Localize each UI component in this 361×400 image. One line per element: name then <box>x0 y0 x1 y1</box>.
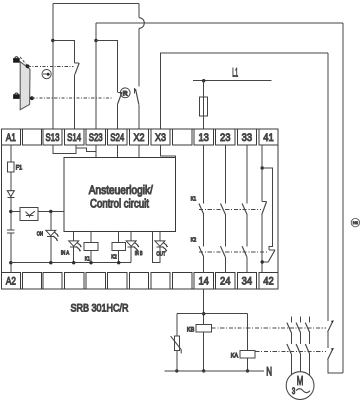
svg-text:KB: KB <box>187 326 195 333</box>
node junction power branch <box>9 210 12 213</box>
wire K1 coil column <box>90 232 92 263</box>
dashed linkage KA <box>255 350 326 352</box>
LED OUT <box>155 241 168 252</box>
node junction 41 branch <box>261 166 264 169</box>
guard door contact 2 (NC, S23-S24) <box>117 92 122 104</box>
wire A1 column <box>10 145 12 230</box>
dashed actuator line lower <box>32 97 112 99</box>
wire second rail S23 feed <box>96 22 343 24</box>
node junction ON to rail <box>49 261 52 264</box>
wire branch varistor and KA <box>177 313 248 315</box>
diode D1 <box>7 191 14 198</box>
power supply unit box with suppressor symbol <box>20 208 38 221</box>
terminal labels bottom row <box>6 275 274 287</box>
wire to power unit <box>11 211 20 213</box>
svg-text:F1: F1 <box>16 164 23 171</box>
wire X3 riser and third rail <box>161 53 328 129</box>
node door actuator dot upper <box>26 64 30 68</box>
svg-text:K2: K2 <box>111 255 117 261</box>
wire IN A led column <box>73 232 75 263</box>
dashed linkage KB <box>211 327 326 329</box>
node junction KB N <box>202 369 205 372</box>
wire IN B led column <box>130 232 132 263</box>
svg-text:41: 41 <box>263 132 274 144</box>
node junction IN A to rail <box>72 261 75 264</box>
wire N rail <box>164 370 264 372</box>
contact pole 13-14 <box>199 145 204 272</box>
node junction S23 branch <box>94 39 97 42</box>
svg-text:K2: K2 <box>191 237 197 243</box>
svg-text:OUT: OUT <box>156 252 166 258</box>
svg-text:S13: S13 <box>46 132 60 144</box>
contactor contact KA pole 3 <box>305 344 309 376</box>
dashed actuator line upper <box>28 65 74 67</box>
LED IN A <box>69 241 82 252</box>
wire internal X2 stub <box>138 145 140 157</box>
monitored contact KB right <box>328 320 334 332</box>
svg-text:L1: L1 <box>232 66 238 80</box>
wire NC K1 to node 42 <box>261 215 263 273</box>
wire OUT led loop <box>152 232 160 263</box>
capacitor C1 <box>7 230 15 233</box>
LED ON <box>46 230 59 241</box>
wire internal S14 jog to S23 <box>76 148 96 151</box>
svg-text:ON: ON <box>37 231 43 237</box>
wire branch to guard contact 2 <box>96 41 117 93</box>
wire between right contacts <box>327 332 329 348</box>
svg-text:S24: S24 <box>110 132 124 144</box>
svg-text:IN A: IN A <box>61 251 69 257</box>
wire internal X3 stub <box>161 145 176 157</box>
NC contact K2 41-42 <box>268 250 275 261</box>
control circuit box U1 <box>64 157 176 231</box>
contactor coil KB <box>196 324 211 332</box>
dashed linkage K1 <box>199 208 261 210</box>
svg-text:X3: X3 <box>155 132 166 144</box>
wire fuse column to terminal 13 <box>203 81 205 130</box>
svg-text:Control circuit: Control circuit <box>90 198 150 210</box>
wire S23 column <box>95 23 97 129</box>
svg-text:34: 34 <box>242 275 253 287</box>
wire capacitor to A2 <box>10 233 12 272</box>
node junction K2 to rail <box>117 261 120 264</box>
node junction contactor feed <box>202 312 205 315</box>
node junction KA N <box>246 369 249 372</box>
relay coil K2 <box>112 242 126 250</box>
contact pole 33-34 <box>242 145 247 272</box>
svg-text:S23: S23 <box>89 132 103 144</box>
LED IN B <box>126 241 139 252</box>
wire L1 supply rail <box>193 80 272 82</box>
wire to terminal S14 <box>74 74 76 129</box>
fuse F1 <box>8 162 14 172</box>
wire internal S24 stub <box>116 145 118 157</box>
svg-text:IN B: IN B <box>135 251 143 257</box>
wire S13 column <box>52 4 54 130</box>
svg-text:X2: X2 <box>134 132 145 144</box>
node junction S13 branch <box>51 39 54 42</box>
wire 41 branch right leg <box>262 168 272 250</box>
wire 41 column <box>261 145 263 201</box>
wire X2 column with crossover hop <box>138 4 140 18</box>
wire varistor to N <box>176 350 178 371</box>
terminal labels top row <box>6 132 274 144</box>
node junction varistor N <box>175 369 178 372</box>
node door actuator dot lower <box>30 96 34 100</box>
monitored contact KA right <box>328 348 334 360</box>
svg-text:33: 33 <box>242 132 253 144</box>
svg-text:H2: H2 <box>353 220 359 225</box>
wire K2 coil column <box>118 232 120 263</box>
node junction ON led <box>49 210 52 213</box>
svg-text:S14: S14 <box>67 132 81 144</box>
padlock upper <box>14 57 20 62</box>
NC contact K1 41-42 <box>262 202 267 215</box>
svg-text:N: N <box>266 367 272 379</box>
varistor RV1 <box>171 336 182 354</box>
contact pole 23-24 <box>221 145 226 272</box>
node L1 tap <box>202 79 205 82</box>
wire KB to N <box>203 332 205 371</box>
wire branch to guard contact 1 <box>53 41 75 63</box>
svg-text:42: 42 <box>263 275 274 287</box>
svg-text:23: 23 <box>220 132 231 144</box>
wire ON led column <box>50 212 52 263</box>
guard door contact 1 (NC, S13-S14) <box>75 63 80 74</box>
contactor contact KA pole 1 <box>287 344 291 375</box>
svg-text:SRB 301HC/R: SRB 301HC/R <box>71 302 129 314</box>
svg-text:Ansteuerlogik/: Ansteuerlogik/ <box>89 185 154 197</box>
indicator H2 <box>351 218 359 226</box>
contactor contact KB pole 1 <box>287 316 291 344</box>
wire internal S13-S14 link <box>53 145 76 154</box>
wire A2 rail <box>11 262 131 264</box>
wire terminal 14 down <box>203 289 205 325</box>
svg-text:K1: K1 <box>85 256 90 262</box>
contactor contact KB pole 3 <box>305 316 309 344</box>
wire to terminal S24 <box>116 104 118 129</box>
terminal boxes top row <box>1 129 278 145</box>
svg-text:R: R <box>123 90 128 97</box>
reset device circle R <box>120 88 130 98</box>
wire varistor column <box>176 314 178 336</box>
module outline SRB 301HC/R <box>1 129 278 289</box>
terminal boxes bottom row <box>1 272 278 289</box>
svg-text:A1: A1 <box>6 132 16 144</box>
svg-text:3: 3 <box>292 386 295 396</box>
dashed linkage K2 <box>199 251 267 253</box>
wire NC K2 to node 42 <box>262 261 268 263</box>
relay coil K1 <box>84 242 98 250</box>
wire KA to N <box>247 358 249 371</box>
svg-text:A2: A2 <box>6 276 16 288</box>
svg-text:24: 24 <box>220 275 231 287</box>
wire right return leg inner upper <box>327 53 329 321</box>
node junction A2 rail <box>9 261 12 264</box>
svg-text:K1: K1 <box>191 196 197 202</box>
wire right return leg outer <box>342 23 344 373</box>
motor M1 <box>286 372 314 400</box>
svg-text:14: 14 <box>198 275 209 287</box>
guard door panel <box>20 62 30 110</box>
contactor contact KA pole 2 <box>296 344 300 372</box>
svg-text:13: 13 <box>198 132 209 144</box>
padlock lower <box>14 93 20 98</box>
wire top rail S13 feed <box>53 3 139 5</box>
wire to terminal X2 <box>138 105 140 129</box>
interlock solenoid symbol <box>42 70 51 79</box>
reset button contact (NO, X2) <box>134 88 139 105</box>
wire power unit to control box <box>38 211 64 213</box>
fuse F2 supply <box>199 97 207 116</box>
node junction K1 to rail <box>89 261 92 264</box>
wire right U bottom <box>328 360 343 373</box>
wire internal S23 stub <box>95 145 97 157</box>
wire KA column <box>247 314 249 351</box>
svg-text:M: M <box>297 373 304 388</box>
svg-text:KA: KA <box>231 352 239 359</box>
node junction 42 <box>261 260 264 263</box>
contactor contact KB pole 2 <box>296 316 300 344</box>
contactor coil KA <box>240 350 255 358</box>
dashed link padlock to door <box>20 57 27 65</box>
